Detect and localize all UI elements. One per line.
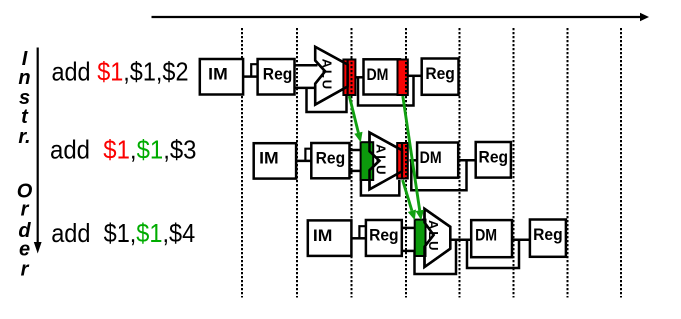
row3 wire IM-Reg [351, 237, 367, 240]
svg-text:r.: r. [18, 126, 30, 148]
row3 wire DM-Reg [512, 238, 531, 241]
row1 Reg box (WB) [422, 59, 459, 95]
row3 Reg box (ID) [366, 220, 402, 256]
row1 bypass loop under ALU [307, 88, 347, 112]
row3 DM box [471, 220, 512, 257]
row2 wire IM-Reg [296, 160, 312, 163]
svg-text:IM: IM [208, 65, 228, 84]
row2 EX/MEM pipeline register (red) [397, 143, 408, 179]
svg-text:ALU: ALU [374, 144, 389, 176]
cycle boundary dotted line 7 [567, 28, 569, 298]
row3 IM box [308, 220, 352, 256]
row2 ALU tip edge over red bar [401, 143, 403, 179]
row3 ALU outline restroke [425, 209, 451, 267]
row3 wire ALU-DM [450, 238, 472, 241]
row1 bypass loop under DM [358, 76, 414, 106]
svg-text:,: , [130, 218, 137, 248]
row2 wire Reg-ALU upper [350, 149, 362, 152]
row1 wire IM-Reg [243, 75, 259, 78]
dotted overlay row1 bar1 [351, 58, 353, 96]
row2 ALU outline restroke [370, 133, 403, 190]
svg-text:r: r [21, 259, 30, 281]
row3 ALU body [425, 209, 451, 267]
row1 IM box [200, 59, 243, 95]
svg-text:add: add [50, 135, 90, 165]
row1 wire MEMWB-Reg [409, 75, 423, 78]
row2 ID/EX register highlighted green (forward target) [361, 142, 374, 180]
svg-text:IM: IM [259, 149, 279, 168]
row1 DM box [364, 59, 401, 94]
row3 ID/EX register highlighted green (forward target) [415, 220, 426, 256]
row2 wire EXMEM-DM [410, 159, 419, 162]
svg-text:e: e [19, 239, 30, 261]
cycle boundary dotted line 5 [459, 28, 461, 298]
svg-text:ALU: ALU [319, 59, 334, 91]
svg-text:add: add [51, 218, 90, 248]
svg-text:$1: $1 [103, 135, 130, 165]
row3 wire Reg-ALU lower [402, 250, 417, 253]
cycle boundary dotted line 2 [296, 28, 298, 298]
svg-text:,$4: ,$4 [163, 218, 196, 248]
row1 MEM/WB pipeline register (red) [398, 60, 408, 96]
row2 Reg box (ID) [311, 143, 349, 178]
svg-text:Reg: Reg [263, 65, 293, 84]
forwarding arrow: row2 EX/MEM to row3 ALU input [403, 180, 412, 211]
svg-text:r: r [21, 199, 30, 221]
row2 ALU body [370, 133, 403, 190]
svg-text:$1: $1 [136, 218, 162, 248]
row2 DM box [417, 143, 458, 178]
svg-text:DM: DM [475, 226, 497, 245]
forwarding arrow: row1 EX/MEM to row2 ALU input [349, 96, 358, 133]
forwarding arrow: row1 MEM/WB to row3 ALU input [403, 96, 420, 210]
svg-text:Reg: Reg [479, 148, 509, 167]
row2 Reg box (WB) [476, 142, 511, 178]
svg-text:DM: DM [366, 65, 388, 84]
svg-text:n: n [18, 67, 30, 89]
row2 wire Reg-ALU lower [350, 170, 362, 173]
svg-text:DM: DM [420, 148, 442, 167]
row2 IM box [254, 143, 296, 178]
dotted overlay row2 red bar [405, 141, 407, 180]
row2 wire DM-Reg [458, 159, 477, 162]
dotted overlay row1 bar2 [405, 58, 407, 96]
row2 bypass loop under ALU [361, 171, 399, 196]
row3 Reg box (WB) [530, 220, 566, 257]
svg-text:$1: $1 [97, 57, 123, 87]
row1 wire Reg-ALU upper [295, 64, 318, 67]
svg-text:,$1,$2: ,$1,$2 [123, 57, 188, 87]
svg-text:Reg: Reg [369, 226, 399, 245]
svg-text:$1: $1 [137, 135, 164, 165]
row1 wire Reg-ALU lower [295, 87, 318, 90]
cycle boundary dotted line 1 [241, 28, 243, 298]
row1 wire EXMEM-DM [356, 76, 365, 79]
row2 latch hook on Reg [305, 149, 312, 161]
svg-text:IM: IM [313, 226, 333, 245]
row3 bypass loop under DM [467, 240, 519, 268]
cycle boundary dotted line 3 [351, 28, 353, 298]
cycle boundary dotted line 6 [513, 28, 515, 298]
instruction order down arrow [37, 48, 39, 246]
cycle boundary dotted line 4 [405, 28, 407, 298]
time axis arrow [152, 16, 642, 18]
svg-text:,$3: ,$3 [163, 135, 196, 165]
row1 EX/MEM pipeline register (red) [343, 60, 355, 96]
svg-text:add: add [52, 57, 91, 87]
row1 ALU tip edge over red bar [347, 60, 349, 96]
row1 ALU body [315, 47, 347, 105]
svg-text:Reg: Reg [316, 149, 346, 168]
svg-text:ALU: ALU [426, 220, 441, 252]
row1 latch hook on Reg [251, 64, 258, 76]
row1 Reg box (ID) [258, 59, 295, 95]
cycle boundary dotted line 8 [620, 28, 622, 298]
row3 bypass loop under ALU [415, 241, 457, 274]
row3 latch hook on Reg [359, 226, 367, 238]
svg-text:Reg: Reg [533, 225, 563, 244]
svg-text:$1: $1 [104, 218, 130, 248]
row1 ALU outline restroke [315, 47, 347, 105]
svg-text:,: , [130, 135, 137, 165]
svg-text:Reg: Reg [425, 64, 455, 83]
row2 bypass loop under DM [411, 160, 466, 190]
row3 wire Reg-ALU upper [402, 227, 417, 230]
